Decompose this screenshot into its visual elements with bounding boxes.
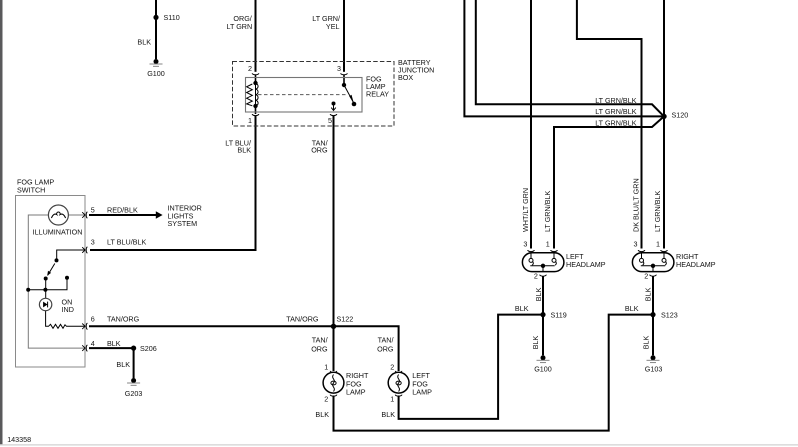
svg-text:LT BLU/BLK: LT BLU/BLK xyxy=(107,237,146,246)
svg-text:BLK: BLK xyxy=(534,287,543,301)
svg-text:LAMP: LAMP xyxy=(412,388,432,397)
svg-text:BLK: BLK xyxy=(643,287,652,301)
svg-text:1: 1 xyxy=(546,240,550,249)
svg-text:1: 1 xyxy=(248,116,252,125)
svg-text:S119: S119 xyxy=(551,311,567,320)
svg-text:ORG: ORG xyxy=(377,344,394,353)
svg-text:BLK: BLK xyxy=(237,146,251,155)
svg-text:G103: G103 xyxy=(645,365,663,374)
svg-text:WHT/LT GRN: WHT/LT GRN xyxy=(521,188,530,232)
svg-text:3: 3 xyxy=(337,64,341,73)
svg-text:1: 1 xyxy=(324,363,328,372)
svg-text:3: 3 xyxy=(634,240,638,249)
svg-text:2: 2 xyxy=(644,271,648,280)
svg-text:LT GRN/BLK: LT GRN/BLK xyxy=(653,191,662,232)
svg-text:RED/BLK: RED/BLK xyxy=(107,206,138,215)
svg-text:S123: S123 xyxy=(661,311,678,320)
svg-text:4: 4 xyxy=(91,339,95,348)
svg-text:TAN/: TAN/ xyxy=(378,336,394,345)
svg-text:ORG: ORG xyxy=(311,146,328,155)
svg-text:S122: S122 xyxy=(337,315,354,324)
svg-text:2: 2 xyxy=(390,363,394,372)
svg-text:LT GRN/BLK: LT GRN/BLK xyxy=(595,119,636,128)
svg-text:TAN/ORG: TAN/ORG xyxy=(107,315,140,324)
svg-text:2: 2 xyxy=(248,64,252,73)
svg-text:ILLUMINATION: ILLUMINATION xyxy=(33,228,83,237)
svg-text:S206: S206 xyxy=(140,344,157,353)
svg-text:BLK: BLK xyxy=(315,410,329,419)
svg-text:BLK: BLK xyxy=(625,304,639,313)
svg-text:ORG: ORG xyxy=(311,344,328,353)
svg-text:3: 3 xyxy=(91,237,95,246)
svg-text:RELAY: RELAY xyxy=(366,90,389,99)
svg-text:BLK: BLK xyxy=(381,410,395,419)
svg-text:S110: S110 xyxy=(164,13,180,22)
svg-text:HEADLAMP: HEADLAMP xyxy=(566,260,606,269)
svg-text:5: 5 xyxy=(91,206,95,215)
svg-text:BLK: BLK xyxy=(116,360,130,369)
svg-text:TAN/: TAN/ xyxy=(312,336,328,345)
svg-text:BLK: BLK xyxy=(641,336,650,350)
svg-text:LT GRN: LT GRN xyxy=(226,22,252,31)
svg-text:BLK: BLK xyxy=(107,339,121,348)
svg-text:YEL: YEL xyxy=(326,22,340,31)
svg-text:HEADLAMP: HEADLAMP xyxy=(676,260,716,269)
svg-text:LT GRN/BLK: LT GRN/BLK xyxy=(595,107,636,116)
svg-text:S120: S120 xyxy=(672,111,689,120)
svg-text:1: 1 xyxy=(390,395,394,404)
svg-text:TAN/ORG: TAN/ORG xyxy=(286,315,319,324)
svg-text:LAMP: LAMP xyxy=(346,388,366,397)
svg-text:LT GRN/BLK: LT GRN/BLK xyxy=(595,96,636,105)
svg-text:BLK: BLK xyxy=(515,304,529,313)
svg-text:1: 1 xyxy=(656,240,660,249)
svg-text:BOX: BOX xyxy=(398,73,413,82)
svg-text:G100: G100 xyxy=(534,365,552,374)
svg-text:SWITCH: SWITCH xyxy=(17,185,45,194)
svg-text:143358: 143358 xyxy=(7,435,31,444)
svg-text:2: 2 xyxy=(534,271,538,280)
svg-text:IND: IND xyxy=(62,305,74,314)
svg-text:2: 2 xyxy=(324,395,328,404)
svg-text:SYSTEM: SYSTEM xyxy=(168,219,198,228)
svg-text:LT GRN/BLK: LT GRN/BLK xyxy=(543,191,552,232)
svg-text:6: 6 xyxy=(91,315,95,324)
svg-text:BLK: BLK xyxy=(137,38,151,47)
svg-text:BLK: BLK xyxy=(531,336,540,350)
svg-text:G100: G100 xyxy=(147,69,165,78)
svg-text:5: 5 xyxy=(328,116,332,125)
svg-text:DK BLU/LT GRN: DK BLU/LT GRN xyxy=(631,178,640,232)
svg-text:G203: G203 xyxy=(125,389,143,398)
svg-text:3: 3 xyxy=(523,240,527,249)
